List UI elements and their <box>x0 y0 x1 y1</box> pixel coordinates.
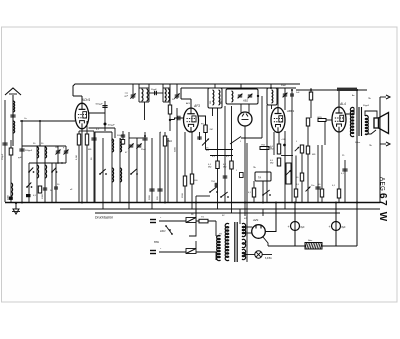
svg-text:300: 300 <box>210 101 212 104</box>
voltage selector <box>166 226 172 234</box>
svg-text:1000: 1000 <box>42 193 44 199</box>
capacitor mid <box>224 106 226 202</box>
svg-text:ABC1: ABC1 <box>286 109 295 113</box>
wire AB2 drop to trafo <box>246 143 248 213</box>
antenna <box>12 95 14 146</box>
ground arrow <box>15 203 17 209</box>
wire ABC1 downs <box>266 105 268 202</box>
switch pickup <box>262 194 264 196</box>
capacitor 500uuF <box>19 148 24 150</box>
capacitor bank drop <box>122 131 124 145</box>
capacitor low b <box>54 186 58 188</box>
transformer right winding b <box>242 239 246 244</box>
blob bottom left <box>9 197 13 200</box>
pickup TA box <box>255 172 271 181</box>
tube ACH1 <box>75 103 89 129</box>
coil osc 1a <box>142 89 144 93</box>
coil bank 1b <box>112 168 114 172</box>
svg-text:8μF: 8μF <box>301 227 306 229</box>
capacitor low <box>43 187 47 189</box>
resistor AL4 cathode <box>337 189 340 198</box>
transformer right winding c <box>242 249 246 253</box>
svg-text:J: J <box>240 141 241 143</box>
svg-text:GRN: GRN <box>317 117 322 119</box>
ground bus main <box>5 202 380 204</box>
wire AL4 top to bus <box>338 90 340 107</box>
svg-text:50μμF: 50μμF <box>151 89 158 91</box>
wire net top link 2 <box>79 130 94 132</box>
trimmer tune 1 <box>57 146 59 163</box>
svg-text:100μμF: 100μμF <box>108 125 116 127</box>
svg-text:2M: 2M <box>210 129 213 131</box>
resistor osc <box>169 102 171 131</box>
resistor 01A <box>253 181 255 203</box>
trimmer bank 2 <box>137 144 142 146</box>
pot arrow lower <box>306 187 311 192</box>
mains line top <box>159 220 216 222</box>
wire drop x240 <box>239 209 241 224</box>
dark bus label <box>337 88 357 91</box>
resistor grid AL4 <box>324 120 326 145</box>
wire grid AL4 <box>326 119 332 121</box>
svg-text:kΩ: kΩ <box>206 150 209 152</box>
node osc <box>169 119 171 121</box>
tube ABC1 <box>271 108 285 133</box>
svg-text:500μμF: 500μμF <box>25 150 33 152</box>
svg-text:MΩ: MΩ <box>312 154 316 156</box>
wire link y155 <box>281 155 293 157</box>
IF can 3 frame <box>267 88 277 105</box>
resistor anode ABC1 <box>306 118 309 126</box>
trimmer tune 2 <box>65 146 67 163</box>
wire IF1 stub down <box>212 108 214 116</box>
svg-text:53nF: 53nF <box>281 85 287 87</box>
capacitor TN1 small <box>240 173 244 178</box>
trimmer 53nF <box>284 88 286 107</box>
mains line bottom <box>159 251 216 253</box>
ground bus 3 <box>95 212 340 214</box>
switch tone b <box>220 196 222 198</box>
capacitor antenna series <box>10 114 15 116</box>
resistor 05M mid <box>301 145 303 202</box>
capacitor AF3 out <box>199 132 201 140</box>
output transformer primary <box>350 107 354 111</box>
wire pickup down <box>262 181 264 202</box>
coil osc 1b <box>147 89 149 93</box>
resistor 42M row <box>231 106 233 213</box>
wire taps to AZ1 <box>244 226 252 228</box>
wire grid feed ACH1 <box>20 120 75 122</box>
resistor TN2 <box>260 147 269 150</box>
wire ACH1 second output <box>89 127 116 129</box>
tube AF3 <box>184 108 199 132</box>
wire ABC1 top <box>271 105 273 109</box>
svg-text:AF3: AF3 <box>193 104 200 108</box>
svg-text:MΩ: MΩ <box>208 167 212 169</box>
svg-text:65W: 65W <box>154 241 160 244</box>
svg-text:AL4: AL4 <box>339 102 346 106</box>
node avc <box>291 89 293 91</box>
wire drop x247 <box>246 213 248 262</box>
capacitor left frame <box>2 142 7 144</box>
wire AL4 anode to output transformer <box>346 108 354 114</box>
svg-text:+: + <box>329 225 331 229</box>
trimmer IF2 a <box>238 94 242 96</box>
wire drop x40 <box>39 121 41 146</box>
coil IF2 <box>232 91 233 95</box>
wire AF3 grid left <box>170 119 175 121</box>
potentiometer 25k arrow <box>205 133 207 150</box>
power transformer primary winding <box>215 221 217 236</box>
power transformer HV winding <box>225 223 229 228</box>
electrolytic 8uF b <box>335 203 337 246</box>
field resistor hatched <box>305 243 322 250</box>
wire right vertical 357 <box>356 90 358 246</box>
resistor 15M <box>277 144 280 154</box>
resistor 01M lower right <box>321 145 323 202</box>
output transformer core <box>358 107 360 136</box>
wire ACH1 anode right <box>89 112 106 114</box>
wire heater to lamp <box>244 254 255 256</box>
resistor k 500 <box>191 132 193 209</box>
capacitor tone TN1 <box>214 183 216 187</box>
wire AF3 anode <box>199 116 206 125</box>
capacitor bank bottom 2 <box>157 188 162 190</box>
coil bank 2b <box>120 168 122 172</box>
svg-text:300: 300 <box>221 101 223 104</box>
node bus dots <box>21 202 23 204</box>
wire right vertical 380 <box>379 97 381 203</box>
resistor screen 1500 <box>184 132 186 202</box>
wire lamp right <box>262 254 272 256</box>
resistor right mid <box>295 156 297 203</box>
resistor 05M <box>277 158 280 166</box>
wire top bus A <box>73 84 300 96</box>
wire top bus right <box>296 89 367 91</box>
node bank <box>144 135 146 137</box>
svg-text:MΩ: MΩ <box>88 149 92 151</box>
svg-text:Schw: Schw <box>355 142 361 144</box>
resistor 01M row <box>217 108 219 209</box>
electrolytic 8uF a <box>294 203 296 246</box>
wire link y149 <box>206 149 234 151</box>
wire drop x22 <box>21 121 23 202</box>
mains plug bottom <box>150 250 156 252</box>
svg-text:250pF: 250pF <box>2 153 4 160</box>
wire drop x263 <box>262 209 264 216</box>
switch mains bottom <box>186 249 196 254</box>
node dots <box>57 162 59 164</box>
svg-text:500μμF: 500μμF <box>117 135 125 137</box>
dial lamp <box>255 251 262 258</box>
svg-text:Netz: Netz <box>308 239 312 242</box>
wire pushbutton verticals <box>94 132 96 202</box>
wire bank top links <box>95 131 112 133</box>
trimmer IF2 b <box>248 94 252 96</box>
osc coil box 1 <box>138 84 140 102</box>
wire AF3 top cap <box>190 99 192 108</box>
svg-text:2MΩ: 2MΩ <box>167 141 172 143</box>
mains plug top <box>150 219 156 221</box>
capacitor AF3 grid <box>177 116 179 121</box>
terminal bottom <box>386 142 390 146</box>
ground bus 2 <box>60 208 380 210</box>
wire switch stub bottom <box>195 241 197 249</box>
svg-text:25nF: 25nF <box>141 149 146 151</box>
capacitor 500uuF <box>102 105 107 107</box>
wire 5000 vertical <box>310 88 312 118</box>
capacitor 10nF <box>317 145 319 202</box>
fuse TS <box>199 219 208 223</box>
switch mains top <box>186 218 196 223</box>
wire left frame <box>4 100 6 202</box>
resistor cathode net 2 <box>86 131 88 202</box>
coil osc 2b <box>168 89 169 93</box>
capacitor bank top <box>142 137 147 139</box>
resistor antenna x11 <box>9 148 13 155</box>
wire switch stub top <box>195 209 197 218</box>
wire AB2 down <box>244 126 246 216</box>
switch bank left <box>99 173 101 175</box>
coil tune 2b <box>45 165 47 169</box>
node IF2 out <box>257 95 259 97</box>
output transformer secondary <box>365 115 368 119</box>
coil tune 2a <box>44 146 46 202</box>
coil tune 1a <box>36 146 38 202</box>
terminal top <box>386 95 390 99</box>
capacitor blob <box>283 144 286 147</box>
switch bank right <box>130 173 132 175</box>
IF can 1 frame <box>208 88 222 108</box>
svg-text:AEG: AEG <box>379 177 386 191</box>
svg-text:0,1M: 0,1M <box>76 155 78 160</box>
wire speaker bottom <box>365 130 376 134</box>
resistor top right small <box>309 92 312 100</box>
coil IF1 b <box>219 90 220 94</box>
svg-text:+: + <box>288 225 290 229</box>
svg-text:J: J <box>296 141 297 143</box>
svg-text:MΩ: MΩ <box>270 163 274 165</box>
capacitor cathode net <box>93 131 95 202</box>
coil tune 1b <box>37 165 39 169</box>
coil antenna lower <box>13 121 15 124</box>
svg-text:6,3/5A: 6,3/5A <box>265 257 272 260</box>
wire bottom B bus <box>268 245 357 247</box>
trimmer mark <box>295 147 299 151</box>
coil bank 2a <box>120 139 122 142</box>
svg-text:Drucktasten: Drucktasten <box>95 216 113 220</box>
power transformer core <box>234 222 236 262</box>
capacitor avc <box>290 93 294 95</box>
wire link y138 <box>241 137 262 139</box>
trimmer osc 2 <box>176 84 178 99</box>
wire antenna branch x11 <box>10 140 12 202</box>
wire osc drop <box>114 128 116 138</box>
node top bus junction <box>356 89 358 91</box>
resistor 2M <box>164 132 166 202</box>
trimmer osc 1 <box>132 84 134 99</box>
coil bank 1a <box>112 139 114 142</box>
wire AB2 top leads <box>240 104 242 113</box>
osc coil box 2 <box>162 84 164 102</box>
tube AB2 diode <box>238 112 252 126</box>
wire tone stub <box>189 196 196 236</box>
transformer right winding a <box>242 223 246 227</box>
wire coupling vertical x105 <box>104 101 106 131</box>
resistor cathode net 1 <box>78 131 80 202</box>
svg-text:50μμF: 50μμF <box>363 105 370 107</box>
coil IF3 <box>272 90 273 93</box>
capacitor 50uuF link <box>149 92 163 94</box>
svg-text:67 W: 67 W <box>377 193 388 223</box>
svg-text:TR: TR <box>219 234 222 236</box>
svg-text:AB2: AB2 <box>242 99 249 103</box>
IF can 2 frame <box>226 89 258 104</box>
resistor 03M arrow <box>307 118 309 202</box>
capacitor bank bottom 1 <box>149 188 154 190</box>
resistor 50 low <box>300 173 303 181</box>
wire osc box1 down <box>144 102 146 120</box>
svg-text:500μμF: 500μμF <box>96 104 104 106</box>
capacitor AL4 cathode bypass <box>344 160 346 202</box>
dark contact block <box>26 194 31 197</box>
wire AL4 cathode down <box>338 132 340 202</box>
coil osc 2a <box>165 89 166 93</box>
speaker <box>374 118 379 128</box>
coil 3000 <box>11 183 13 187</box>
resistor 2M anode <box>204 125 207 133</box>
coil IF1 a <box>213 90 214 94</box>
switch tune a <box>28 163 30 202</box>
trimmer bank 1 <box>129 144 134 146</box>
resistor low <box>38 186 41 193</box>
wire ACH1 top cap <box>81 96 83 104</box>
wire net top link <box>22 145 66 147</box>
wire IF can stubs <box>214 84 216 88</box>
wire mid link <box>29 162 66 164</box>
tube AZ1 <box>252 225 266 239</box>
switch low a <box>26 186 28 188</box>
wire speaker top <box>365 111 377 118</box>
svg-text:8μF: 8μF <box>342 227 347 229</box>
svg-text:TA: TA <box>258 176 261 180</box>
wire ACH1 bottom down <box>81 129 83 202</box>
wire AZ1 output B+ <box>265 203 276 232</box>
svg-text:220V: 220V <box>160 230 166 233</box>
potentiometer volume box <box>291 90 293 202</box>
capacitor 100uuF blob <box>104 123 107 126</box>
wire top bus B <box>181 87 296 89</box>
svg-text:AZ1: AZ1 <box>252 218 259 222</box>
switch tune b <box>51 163 53 202</box>
wire diag AB2 link <box>230 137 241 145</box>
wire AZ1 to bus246 <box>263 237 268 246</box>
wire AF3 left vertical <box>176 108 178 202</box>
wire link y156 <box>210 155 233 157</box>
coil antenna input <box>13 101 15 104</box>
tube AL4 <box>332 107 346 132</box>
switch tone a <box>209 191 211 193</box>
